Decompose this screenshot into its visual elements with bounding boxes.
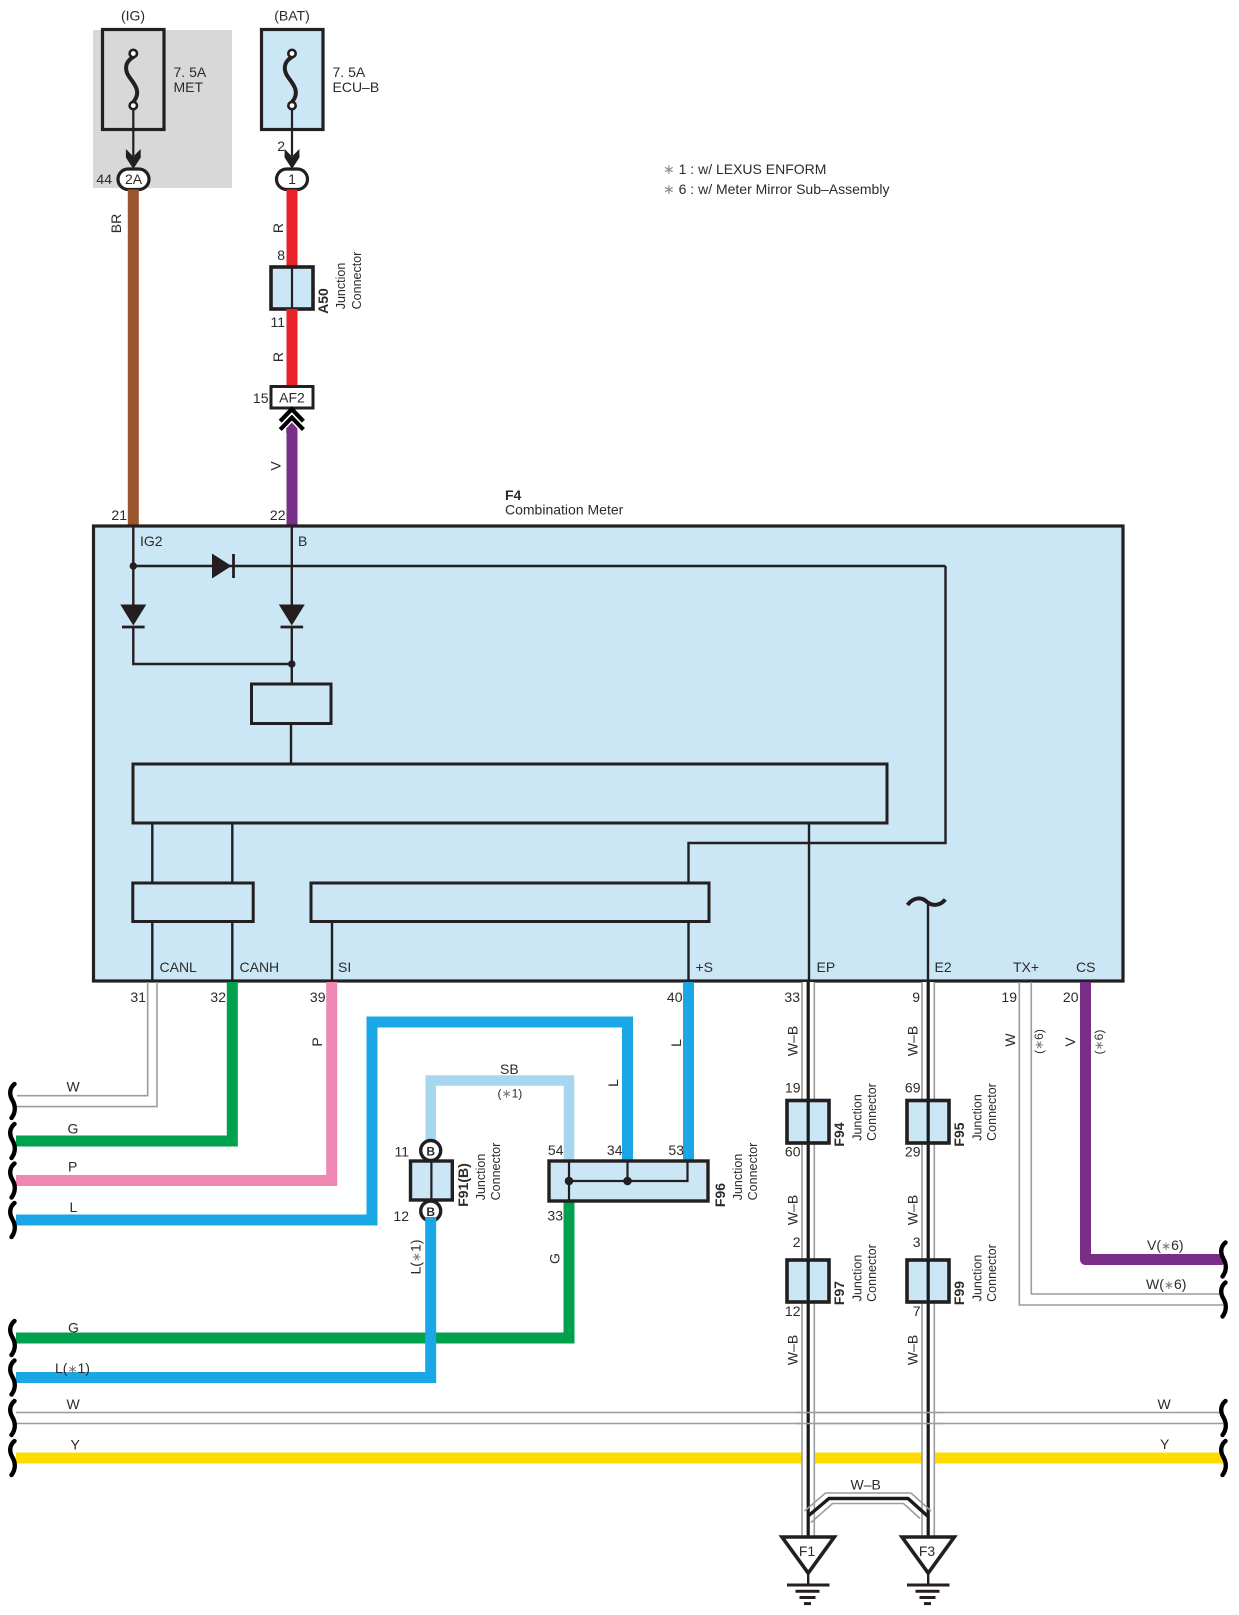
wire W horizontal bus (white outline) xyxy=(16,1413,1223,1424)
svg-text:Junction: Junction xyxy=(851,1255,865,1302)
svg-text:R: R xyxy=(270,352,286,362)
svg-text:W–B: W–B xyxy=(905,1026,921,1056)
svg-text:21: 21 xyxy=(111,507,127,523)
svg-text:Junction: Junction xyxy=(731,1154,745,1201)
svg-text:19: 19 xyxy=(785,1080,801,1096)
svg-text:B: B xyxy=(298,533,307,549)
wire IG2 internal vertical xyxy=(132,527,134,605)
junction connector F91(B) bottom pin B xyxy=(421,1201,441,1221)
svg-text:2A: 2A xyxy=(125,171,143,187)
combination meter F4 body xyxy=(94,526,1124,981)
internal ground wave E2 xyxy=(908,898,946,905)
internal block U4 (long bar) xyxy=(311,883,709,922)
svg-text:W–B: W–B xyxy=(905,1195,921,1225)
svg-text:P: P xyxy=(68,1159,77,1175)
diode D1 (series, pointing right) xyxy=(212,554,234,579)
svg-text:W(∗6): W(∗6) xyxy=(1146,1276,1186,1292)
wire P from pin 39 (pink) xyxy=(16,982,332,1181)
svg-text:AF2: AF2 xyxy=(279,390,305,406)
svg-text:W–B: W–B xyxy=(785,1335,801,1365)
wire E2 internal xyxy=(927,904,929,982)
internal block U1 xyxy=(252,684,332,724)
svg-text:F99: F99 xyxy=(951,1281,967,1305)
page break squiggle G left xyxy=(10,1124,15,1158)
junction connector F94 xyxy=(787,1101,829,1144)
svg-text:L: L xyxy=(70,1199,78,1215)
svg-text:Y: Y xyxy=(1160,1436,1170,1452)
svg-text:W–B: W–B xyxy=(785,1026,801,1056)
svg-text:CANL: CANL xyxy=(160,959,198,975)
svg-text:EP: EP xyxy=(817,959,836,975)
wire diode D3 to node xyxy=(291,627,293,684)
svg-text:V(∗6): V(∗6) xyxy=(1147,1237,1184,1253)
svg-text:33: 33 xyxy=(547,1208,563,1224)
wire BR (brown) pin 44 to pin 21 xyxy=(128,190,139,527)
svg-text:W: W xyxy=(1158,1396,1172,1412)
svg-text:22: 22 xyxy=(270,507,286,523)
svg-text:E2: E2 xyxy=(935,959,952,975)
svg-text:33: 33 xyxy=(784,989,800,1005)
svg-text:Y: Y xyxy=(71,1437,81,1453)
junction connector F96 body xyxy=(549,1161,708,1201)
connector AF2 xyxy=(271,387,313,409)
wire V (violet) AF2 to pin 22 xyxy=(286,423,297,434)
svg-text:W–B: W–B xyxy=(785,1195,801,1225)
svg-text:W–B: W–B xyxy=(905,1335,921,1365)
gray block behind IG fuse xyxy=(93,30,232,188)
wire G from pin 32 (green) xyxy=(16,982,232,1141)
svg-text:P: P xyxy=(309,1037,325,1046)
svg-text:F96: F96 xyxy=(712,1183,728,1207)
svg-text:Connector: Connector xyxy=(985,1244,999,1302)
svg-text:F3: F3 xyxy=(919,1543,936,1559)
svg-text:Junction: Junction xyxy=(474,1154,488,1201)
wire L(*1) from F91(B) pin 12 to left edge (blue) xyxy=(16,1217,431,1378)
page break squiggle W left xyxy=(10,1084,15,1118)
page break squiggle W(*6) right xyxy=(1221,1283,1226,1317)
svg-text:W: W xyxy=(1002,1033,1018,1047)
wire R (red) A50 pin 11 to AF2 xyxy=(287,309,298,387)
wire SB F91(B) pin 11 to F96 pin 54 (sky blue) xyxy=(431,1081,569,1163)
wire B internal vertical xyxy=(291,527,293,605)
page link double chevron xyxy=(280,409,303,429)
connector arrow into 2A xyxy=(126,149,141,169)
wire W from pin 31 (white outline) xyxy=(17,982,157,1107)
svg-text:BR: BR xyxy=(108,214,124,233)
svg-text:CS: CS xyxy=(1076,959,1095,975)
svg-text:7. 5A: 7. 5A xyxy=(174,64,207,80)
ground F3 xyxy=(902,1537,954,1604)
svg-text:G: G xyxy=(547,1253,563,1264)
node junction dot IG2 xyxy=(130,562,137,569)
svg-text:60: 60 xyxy=(785,1144,801,1160)
svg-text:Connector: Connector xyxy=(985,1083,999,1141)
svg-text:G: G xyxy=(68,1121,79,1137)
svg-text:F94: F94 xyxy=(831,1122,847,1146)
svg-text:7. 5A: 7. 5A xyxy=(333,64,366,80)
svg-text:TX+: TX+ xyxy=(1013,959,1039,975)
wire W-B from pin 33 EP to ground F1 (white with black stripe) xyxy=(802,982,814,1537)
svg-text:(IG): (IG) xyxy=(121,8,145,24)
svg-text:Combination Meter: Combination Meter xyxy=(505,502,624,518)
svg-text:Junction: Junction xyxy=(971,1255,985,1302)
svg-text:W: W xyxy=(67,1396,81,1412)
page break squiggle G2 left xyxy=(10,1321,15,1355)
fuse ECU-B 7.5A xyxy=(262,30,324,130)
wire fuse ECU-B to connector 1 xyxy=(291,109,293,156)
wire CANL internal xyxy=(151,922,153,982)
svg-text:B: B xyxy=(426,1145,435,1159)
connector oval 2A xyxy=(118,169,149,190)
wire fuse MET to connector 2A xyxy=(132,109,134,156)
svg-text:11: 11 xyxy=(270,314,285,330)
svg-text:15: 15 xyxy=(253,390,269,406)
svg-text:W–B: W–B xyxy=(851,1477,881,1493)
wire U2 to CAN block left xyxy=(151,823,153,883)
svg-text:IG2: IG2 xyxy=(140,533,163,549)
junction connector F99 xyxy=(907,1260,949,1302)
wire G from F96 pin 33 to left edge (green) xyxy=(16,1201,569,1338)
internal block U3 (CAN driver) xyxy=(133,883,253,922)
wire U1 to U2 xyxy=(290,724,292,765)
svg-text:2: 2 xyxy=(277,138,285,154)
svg-text:69: 69 xyxy=(905,1080,921,1096)
svg-text:SI: SI xyxy=(338,959,351,975)
page break squiggle W2 left xyxy=(10,1401,15,1435)
svg-text:∗ 1 : w/ LEXUS ENFORM: ∗ 1 : w/ LEXUS ENFORM xyxy=(663,161,826,177)
svg-text:34: 34 xyxy=(607,1142,623,1158)
svg-text:L: L xyxy=(605,1079,621,1087)
svg-text:Connector: Connector xyxy=(489,1143,503,1201)
svg-text:Connector: Connector xyxy=(865,1083,879,1141)
wire Y horizontal bus (yellow) xyxy=(16,1453,1223,1464)
svg-text:F91(B): F91(B) xyxy=(455,1163,471,1207)
wire W horizontal bus overlay at crossings xyxy=(795,1413,945,1424)
svg-text:A50: A50 xyxy=(315,288,331,314)
junction connector A50 xyxy=(271,267,313,309)
svg-text:39: 39 xyxy=(310,989,326,1005)
page break squiggle V right xyxy=(1221,1243,1226,1277)
svg-text:40: 40 xyxy=(667,989,683,1005)
svg-text:MET: MET xyxy=(174,79,204,95)
svg-text:V: V xyxy=(1062,1037,1078,1047)
node junction dot B xyxy=(288,660,295,667)
connector arrow into 1 xyxy=(285,149,300,169)
wire below diode D2 xyxy=(133,627,291,664)
junction connector F91(B) body xyxy=(411,1161,453,1200)
svg-text:12: 12 xyxy=(785,1303,801,1319)
wire internal horizontal to right loop xyxy=(133,565,945,567)
page break squiggle L left xyxy=(10,1203,15,1237)
svg-text:Connector: Connector xyxy=(350,252,364,310)
wire L from left edge to F96 pin 34 (blue) xyxy=(16,1022,628,1220)
svg-text:R: R xyxy=(270,223,286,233)
svg-text:Connector: Connector xyxy=(865,1244,879,1302)
svg-text:29: 29 xyxy=(905,1144,921,1160)
internal block U2 (main bar) xyxy=(133,764,887,823)
svg-text:W: W xyxy=(67,1079,81,1095)
svg-text:Connector: Connector xyxy=(746,1143,760,1201)
page break squiggle L(*1) left xyxy=(10,1361,15,1395)
svg-text:32: 32 xyxy=(210,989,226,1005)
fuse MET 7.5A xyxy=(103,30,165,130)
svg-text:7: 7 xyxy=(913,1303,921,1319)
svg-text:1: 1 xyxy=(288,171,296,187)
svg-text:Junction: Junction xyxy=(851,1094,865,1141)
svg-text:20: 20 xyxy=(1063,989,1079,1005)
svg-text:L(∗1): L(∗1) xyxy=(55,1360,90,1376)
svg-text:19: 19 xyxy=(1001,989,1017,1005)
svg-text:L(∗1): L(∗1) xyxy=(408,1240,424,1275)
wire SI internal xyxy=(331,922,333,982)
connector oval 1 xyxy=(277,169,308,190)
svg-text:V: V xyxy=(268,461,284,471)
page break squiggle Y left xyxy=(10,1441,15,1475)
svg-text:2: 2 xyxy=(793,1234,801,1250)
wire W from pin 19 TX+ to right edge (white outline) xyxy=(1019,982,1223,1305)
svg-text:F1: F1 xyxy=(799,1543,816,1559)
svg-text:(∗1): (∗1) xyxy=(498,1087,523,1101)
wire L from pin 40 to F96 pin 53 (blue) xyxy=(683,982,694,1162)
page break squiggle P left xyxy=(10,1164,15,1198)
junction connector F95 xyxy=(907,1101,949,1144)
wire W-B bridge between ground wires xyxy=(805,1493,932,1523)
svg-text:11: 11 xyxy=(394,1144,409,1160)
wire CANH internal xyxy=(231,922,233,982)
svg-text:F97: F97 xyxy=(831,1281,847,1305)
svg-text:31: 31 xyxy=(130,989,146,1005)
svg-text:CANH: CANH xyxy=(240,959,280,975)
svg-text:12: 12 xyxy=(393,1208,409,1224)
svg-text:Junction: Junction xyxy=(971,1094,985,1141)
diode D2 (IG2 branch, pointing down) xyxy=(120,605,146,628)
page break squiggle W2 right xyxy=(1221,1401,1226,1435)
svg-text:Junction: Junction xyxy=(334,263,348,310)
svg-text:(∗6): (∗6) xyxy=(1092,1030,1106,1055)
wire W-B from pin 9 E2 to ground F3 (white with black stripe) xyxy=(922,982,934,1537)
svg-text:9: 9 xyxy=(912,989,920,1005)
page break squiggle Y right xyxy=(1221,1441,1226,1475)
svg-text:SB: SB xyxy=(500,1061,519,1077)
svg-text:8: 8 xyxy=(277,247,285,263)
svg-text:∗ 6 : w/ Meter Mirror Sub–Asse: ∗ 6 : w/ Meter Mirror Sub–Assembly xyxy=(663,181,889,197)
wire R (red) connector 1 to A50 pin 8 xyxy=(287,190,298,269)
svg-text:L: L xyxy=(668,1039,684,1047)
svg-text:44: 44 xyxy=(96,171,112,187)
junction connector F91(B) top pin B xyxy=(421,1141,441,1161)
svg-text:3: 3 xyxy=(913,1234,921,1250)
svg-text:53: 53 xyxy=(668,1142,684,1158)
wire right loop from diode line down and to +S xyxy=(689,566,946,981)
ground F1 xyxy=(782,1537,834,1604)
svg-text:(∗6): (∗6) xyxy=(1032,1029,1046,1054)
svg-text:G: G xyxy=(68,1320,79,1336)
diode D3 (B branch, pointing down) xyxy=(279,605,305,628)
wire V from pin 20 CS to right edge (violet) xyxy=(1086,982,1224,1260)
svg-text:ECU–B: ECU–B xyxy=(333,79,380,95)
wire U2 to CAN block right xyxy=(231,823,233,883)
svg-text:(BAT): (BAT) xyxy=(274,8,310,24)
svg-text:F95: F95 xyxy=(951,1122,967,1146)
svg-text:54: 54 xyxy=(548,1142,564,1158)
junction connector F97 xyxy=(787,1260,829,1302)
svg-text:+S: +S xyxy=(696,959,714,975)
wire EP internal xyxy=(808,823,810,981)
svg-text:B: B xyxy=(426,1205,435,1219)
